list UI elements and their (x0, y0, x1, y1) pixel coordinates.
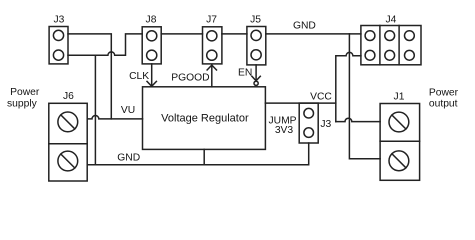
svg-text:J6: J6 (63, 91, 74, 102)
connector J7 (2-pin header) (203, 27, 222, 64)
svg-text:GND: GND (293, 21, 316, 32)
wire GND rail: J6 pin2 along bottom, up into jumper J3 pin2 (87, 143, 308, 165)
wire VU line: J6 pin1 to regulator input (hop over GND vertical at x=95.4) (87, 116, 142, 119)
svg-text:J3: J3 (320, 119, 331, 130)
connector J5 (2-pin header) (247, 27, 266, 65)
wire CLK: J8 pin2 down into regulator (151, 64, 153, 87)
svg-text:VU: VU (121, 105, 135, 116)
svg-text:GND: GND (117, 152, 140, 163)
arrow EN (points down onto circle) (252, 76, 260, 81)
terminal EN open circle on regulator top edge (254, 81, 258, 85)
connector J4 (3x2 header, top right) (361, 26, 421, 65)
svg-text:3V3: 3V3 (275, 125, 294, 136)
svg-text:J3: J3 (53, 14, 64, 25)
jumper header J3 (JUMP 3V3, right side) (299, 103, 318, 143)
svg-text:J8: J8 (146, 14, 157, 25)
svg-text:Power: Power (429, 87, 459, 98)
wire EN: J5 pin2 down to open-circle terminal (255, 65, 257, 81)
svg-text:J7: J7 (206, 14, 217, 25)
connector J8 (2-pin header) (142, 27, 161, 64)
svg-text:J5: J5 (250, 14, 261, 25)
wire GND vertical: from J3 pin2 wire down to bottom GND rail (94, 55, 96, 164)
arrow CLK (points down into regulator) (147, 81, 156, 86)
wire GND bus: J7 to J5 (222, 33, 247, 35)
arrow PGOOD (points up into J7) (207, 65, 216, 70)
svg-text:VCC: VCC (310, 92, 332, 103)
screw terminal J1 (power output, 2 screws) (380, 104, 420, 181)
screw terminal J6 (power supply, 2 screws) (49, 103, 87, 181)
wire GND bus: J8 to J7 (161, 33, 202, 35)
svg-text:J1: J1 (394, 91, 405, 102)
wire VU: J3 pin1 right then down to VU line (68, 34, 111, 119)
svg-text:J4: J4 (385, 14, 396, 25)
voltage regulator U1 (block) (143, 87, 266, 150)
svg-text:Voltage Regulator: Voltage Regulator (161, 113, 249, 125)
wire VCC: J4 bottom row left (hop over GND drop) then down to J1 level (336, 52, 361, 121)
wire GND stub: regulator ground pin down to GND rail (203, 149, 205, 164)
wire GND bus: J5 to J4 (junction at x=349.4) (266, 33, 361, 35)
svg-text:Power: Power (10, 87, 40, 98)
svg-text:supply: supply (7, 98, 38, 109)
svg-text:PGOOD: PGOOD (171, 73, 209, 84)
svg-text:output: output (429, 99, 458, 110)
wire PGOOD: regulator up to J7 pin2 (211, 65, 213, 87)
svg-text:CLK: CLK (129, 71, 149, 82)
wire GND: J3 pin2 right (crossover hop at x=111.3) up to top bus, into J8 pin1 (68, 34, 142, 55)
wire VCC: right leg to J1 pin1 (hop over GND drop) (336, 118, 380, 121)
svg-text:EN: EN (238, 67, 252, 78)
wire GND drop: bus junction down to J1 pin2 (bottom terminal) (349, 34, 380, 159)
connector J3 (2-pin header, top left) (49, 27, 68, 64)
wire VCC: regulator output pin to VCC vertical (265, 102, 335, 104)
